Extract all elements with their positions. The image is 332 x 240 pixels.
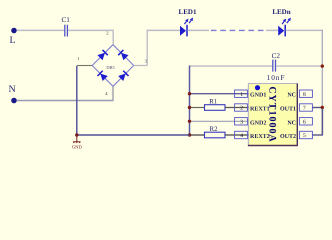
- bridge pin 1 stub: [77, 65, 92, 67]
- LED LED1: [179, 8, 197, 37]
- ground GND: [73, 135, 81, 143]
- pin 1 box: [235, 90, 248, 97]
- node L: [10, 28, 17, 47]
- pin 4 box: [235, 131, 248, 138]
- junction GND bus pin1: [188, 92, 191, 95]
- svg-text:GND2: GND2: [250, 120, 266, 126]
- wire R1 to pin 2: [225, 107, 248, 109]
- svg-text:10nF: 10nF: [267, 73, 286, 82]
- LED LEDn: [272, 8, 291, 37]
- svg-text:1: 1: [240, 92, 243, 98]
- svg-text:N: N: [9, 84, 16, 95]
- wire right bus vertical: [321, 30, 323, 136]
- pin 3 box: [235, 118, 248, 125]
- wire L to C1: [17, 29, 65, 31]
- wire DC drop pin1-to-ground: [76, 66, 78, 135]
- svg-text:OUT2: OUT2: [280, 134, 296, 140]
- svg-text:REXT2: REXT2: [250, 134, 270, 140]
- svg-text:REXT1: REXT1: [250, 107, 270, 113]
- IC U1 CYT1000A body: [248, 84, 298, 146]
- wire C2 right: [276, 65, 322, 67]
- wire pin 5 to right bus: [312, 134, 323, 136]
- svg-text:R2: R2: [210, 126, 219, 133]
- wire LED1 cathode: [188, 29, 210, 31]
- wire R2 to pin 4: [225, 134, 248, 136]
- wire C1 to bridge top corner: [68, 29, 113, 31]
- svg-text:6: 6: [303, 120, 306, 126]
- wire C2 left: [190, 65, 273, 67]
- svg-text:GND: GND: [72, 145, 83, 151]
- wire GND rail: [77, 134, 190, 136]
- svg-text:LED1: LED1: [179, 8, 197, 16]
- wire GND bus vertical: [189, 66, 191, 136]
- wire riser to LED1: [147, 29, 180, 31]
- wire dashed LED string: [211, 29, 267, 31]
- svg-text:2: 2: [240, 106, 243, 112]
- wire R2 left from GND bus: [190, 134, 205, 136]
- diode bottom-right (points up-right): [118, 71, 128, 81]
- svg-text:C2: C2: [272, 52, 281, 60]
- svg-text:7: 7: [303, 106, 306, 112]
- svg-text:OUT1: OUT1: [280, 107, 296, 113]
- junction GND bus R1: [188, 106, 191, 109]
- wire LEDn to right bus: [286, 29, 323, 31]
- wire R1 left from GND bus: [190, 107, 205, 109]
- wire bridge pin3 riser: [146, 30, 148, 66]
- wire pin1 from GND bus: [190, 93, 249, 95]
- capacitor C2: [267, 52, 286, 82]
- wire pin3 from GND bus: [190, 120, 249, 122]
- svg-text:DB5: DB5: [106, 65, 115, 70]
- pin 2 box: [235, 104, 248, 111]
- IC pin1 indicator dot: [255, 85, 260, 90]
- bridge pin 4 stub: [112, 86, 114, 100]
- svg-text:3: 3: [240, 120, 243, 126]
- wire N to bridge pin 4: [17, 100, 114, 102]
- diode top-left (anode at pin1 side): [97, 50, 107, 60]
- svg-text:L: L: [10, 35, 16, 46]
- svg-text:5: 5: [303, 133, 306, 139]
- svg-text:4: 4: [240, 133, 243, 139]
- svg-text:NC: NC: [287, 93, 296, 99]
- svg-text:C1: C1: [62, 16, 71, 24]
- bridge rectifier DB5 body: [92, 45, 134, 87]
- wire pin 7 to right bus: [312, 107, 323, 109]
- junction right bus pin7: [321, 106, 324, 109]
- svg-text:R1: R1: [209, 99, 217, 106]
- resistor R1: [205, 99, 226, 111]
- bridge pin 3 stub: [134, 65, 148, 67]
- node N: [9, 84, 17, 103]
- svg-text:8: 8: [303, 92, 306, 98]
- capacitor C1: [62, 16, 71, 36]
- resistor R2: [205, 126, 226, 138]
- pin 6 box: [299, 118, 312, 125]
- svg-text:GND1: GND1: [250, 93, 266, 99]
- junction GND bus R2: [188, 133, 191, 136]
- pin 5 box: [299, 131, 312, 138]
- svg-text:LEDn: LEDn: [272, 8, 290, 16]
- junction GND rail ground: [75, 133, 78, 136]
- wire to LEDn: [266, 29, 278, 31]
- junction C2/right bus: [321, 64, 324, 67]
- junction GND bus pin3: [188, 120, 191, 123]
- pin 8 box: [299, 90, 312, 97]
- diode bottom-left (points up-left): [97, 71, 107, 81]
- svg-text:NC: NC: [287, 120, 296, 126]
- pin 7 box: [299, 104, 312, 111]
- wire drop to bridge pin 2: [112, 30, 114, 45]
- diode top-right (points up-left): [118, 50, 128, 60]
